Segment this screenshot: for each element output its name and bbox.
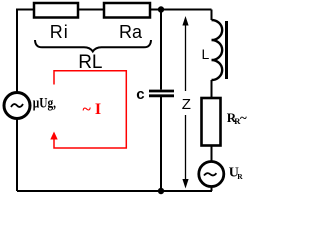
svg-text:L: L	[202, 46, 210, 62]
svg-text:~ I: ~ I	[83, 101, 102, 118]
svg-text:Z: Z	[182, 96, 191, 113]
svg-text:Ri: Ri	[50, 22, 69, 42]
svg-text:~: ~	[240, 110, 247, 125]
svg-text:c: c	[136, 86, 144, 103]
svg-text:Ra: Ra	[119, 22, 143, 42]
svg-text:RL: RL	[78, 52, 102, 73]
svg-text:R: R	[237, 172, 243, 181]
svg-text:μUg,: μUg,	[33, 96, 56, 112]
